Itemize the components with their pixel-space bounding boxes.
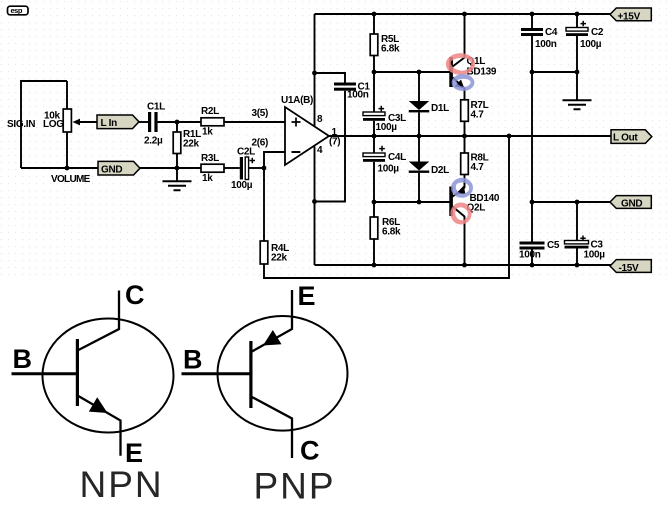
svg-text:4.7: 4.7 xyxy=(471,110,485,121)
svg-text:4: 4 xyxy=(317,145,323,156)
wire C3L bottom stub xyxy=(373,121,375,136)
annotation blue circle Q1L emitter xyxy=(452,75,473,90)
wire R1L top stub xyxy=(176,122,178,132)
node pin4/C1 junction xyxy=(312,199,317,204)
svg-text:(7): (7) xyxy=(329,137,340,148)
wire C3 bottom stub xyxy=(576,249,578,266)
wire SIG.IN loop left/top/bottom xyxy=(21,81,98,168)
capacitor C4 100n xyxy=(521,27,558,50)
node B / D2L xyxy=(417,200,422,205)
node C2 bottom xyxy=(575,70,580,75)
node R6L/-15V xyxy=(372,263,377,268)
wire L In tag to C1L xyxy=(139,121,148,123)
pot wiper arrow xyxy=(73,119,98,126)
op-amp U1A(B) xyxy=(281,95,329,165)
wire D2L top stub xyxy=(418,136,420,162)
svg-text:1k: 1k xyxy=(202,173,213,184)
transistor Q2L BD140 xyxy=(449,186,500,265)
tag +15V xyxy=(610,8,651,22)
svg-text:100µ: 100µ xyxy=(376,122,398,133)
wire R5L bottom stub xyxy=(373,56,375,73)
node C3/-15V xyxy=(575,263,580,268)
node C4/+15V xyxy=(530,12,535,17)
svg-text:PNP: PNP xyxy=(254,466,336,507)
node B (Q2L base) xyxy=(372,200,377,205)
annotation red circle Q2L collector xyxy=(451,203,471,223)
node output/C3L-C4L xyxy=(372,134,377,139)
capacitor C4L 100u xyxy=(363,146,406,175)
ESP logo xyxy=(8,6,29,15)
svg-text:SIG.IN: SIG.IN xyxy=(7,119,35,130)
ground symbol right xyxy=(563,100,592,109)
svg-text:100n: 100n xyxy=(519,250,541,261)
ground stub input xyxy=(176,168,178,181)
node GND/C3 xyxy=(575,200,580,205)
svg-text:U1A(B): U1A(B) xyxy=(281,95,313,106)
wire C1 top branch xyxy=(315,73,346,83)
node C5/-15V xyxy=(530,263,535,268)
svg-text:3(5): 3(5) xyxy=(252,108,269,119)
node inverting input junction xyxy=(262,166,267,171)
capacitor C2 100u xyxy=(566,21,604,50)
node output/feedback xyxy=(507,134,512,139)
wire R8L top stub xyxy=(464,136,466,153)
wire C3L top stub xyxy=(373,72,375,112)
svg-text:22k: 22k xyxy=(271,253,288,264)
annotation red circle Q1L collector xyxy=(447,54,475,74)
svg-text:22k: 22k xyxy=(183,139,200,150)
wire pot top stub xyxy=(66,81,68,109)
svg-text:D2L: D2L xyxy=(431,165,449,176)
svg-text:GND: GND xyxy=(101,165,122,176)
svg-text:GND: GND xyxy=(621,199,642,210)
node Q1L collector/+15V xyxy=(462,12,467,17)
NPN base lead xyxy=(12,372,78,375)
PNP collector lead xyxy=(251,397,292,459)
svg-text:1k: 1k xyxy=(202,127,213,138)
capacitor C2L 100u xyxy=(231,147,255,192)
tag -15V xyxy=(610,260,651,274)
wire pot bottom stub xyxy=(66,132,68,168)
wire input ground rail xyxy=(139,167,201,169)
resistor R7L 4.7 xyxy=(461,100,489,122)
wire C4 bottom line xyxy=(531,36,533,242)
svg-text:8: 8 xyxy=(317,114,323,125)
NPN symbol circle xyxy=(43,319,174,433)
wire C3 top stub xyxy=(576,202,578,241)
svg-text:100µ: 100µ xyxy=(584,250,606,261)
svg-text:C5: C5 xyxy=(547,240,560,251)
svg-text:C1L: C1L xyxy=(147,102,165,113)
wire C4L top stub xyxy=(373,136,375,153)
resistor R4L 22k xyxy=(260,241,289,264)
svg-text:E: E xyxy=(298,281,316,311)
wire R6L bottom stub xyxy=(373,239,375,265)
svg-text:LOG: LOG xyxy=(43,119,64,130)
wire R8L bottom stub xyxy=(464,175,466,189)
svg-text:L Out: L Out xyxy=(613,133,638,144)
svg-text:100n: 100n xyxy=(347,90,369,101)
capacitor C1L 2.2u xyxy=(144,102,165,147)
wire C2 top stub xyxy=(576,14,578,28)
wire D2L bottom stub xyxy=(418,173,420,202)
svg-text:2(6): 2(6) xyxy=(252,138,269,149)
node input ground junction xyxy=(175,166,180,171)
annotation blue circle Q2L emitter xyxy=(452,179,472,197)
wire +15V rail xyxy=(315,13,612,15)
svg-text:R2L: R2L xyxy=(201,106,219,117)
wire pin 4 supply xyxy=(314,147,316,266)
wire output bus xyxy=(329,135,611,137)
wire R6L top stub xyxy=(373,202,375,217)
node output/R7L-R8L xyxy=(462,134,467,139)
wire node A rail xyxy=(374,71,450,73)
svg-text:100µ: 100µ xyxy=(231,180,253,191)
node output/diodes xyxy=(417,134,422,139)
svg-text:D1L: D1L xyxy=(431,103,449,114)
svg-text:L In: L In xyxy=(101,118,118,129)
resistor R3L 1k xyxy=(201,153,224,184)
ground stub right xyxy=(576,72,578,100)
capacitor C3L 100u xyxy=(363,106,406,133)
wire R5L top stub xyxy=(373,14,375,34)
wire C2 bottom stub xyxy=(576,36,578,72)
NPN collector lead xyxy=(78,291,120,351)
svg-text:B: B xyxy=(183,345,203,375)
tag GND input xyxy=(98,161,140,175)
wire R4L top xyxy=(263,168,265,241)
wire C4 top stub xyxy=(531,14,533,28)
svg-text:100µ: 100µ xyxy=(580,39,602,50)
node C4 bottom xyxy=(530,70,535,75)
wire R3L to C2L xyxy=(224,167,240,169)
svg-text:6.8k: 6.8k xyxy=(381,44,400,55)
ground symbol input xyxy=(163,181,192,190)
wire C1 bottom branch xyxy=(315,91,346,202)
wire C1L to R2L xyxy=(158,121,201,123)
NPN emitter lead xyxy=(78,396,121,456)
node VOLUME junction xyxy=(65,166,70,171)
svg-text:C: C xyxy=(300,436,320,466)
svg-text:2.2µ: 2.2µ xyxy=(144,136,163,147)
svg-text:C: C xyxy=(125,280,145,310)
diode D1L xyxy=(409,101,449,114)
wire R1L bottom stub xyxy=(176,154,178,169)
node C1L/R1L junction xyxy=(175,120,180,125)
svg-text:100n: 100n xyxy=(535,39,557,50)
diode D2L xyxy=(409,162,449,177)
wire D1L top stub xyxy=(418,72,420,101)
svg-text:esp: esp xyxy=(11,6,23,15)
node pin8/C1 junction xyxy=(312,71,317,76)
capacitor C3 100u xyxy=(565,236,606,261)
wire pin 8 supply xyxy=(314,14,316,127)
potentiometer VR1 10k LOG xyxy=(43,109,71,132)
wire -in riser xyxy=(264,152,285,168)
node A / D1L xyxy=(417,70,422,75)
wire R4L bottom to feedback run xyxy=(264,136,509,278)
svg-text:NPN: NPN xyxy=(80,464,164,505)
node GND/C5 xyxy=(530,200,535,205)
node Q2L collector/-15V xyxy=(462,263,467,268)
tag GND output xyxy=(610,196,651,210)
transistor Q1L BD139 xyxy=(449,14,497,100)
svg-text:100µ: 100µ xyxy=(378,164,400,175)
wire R7L bottom stub xyxy=(464,121,466,136)
capacitor C5 100n xyxy=(519,240,560,261)
svg-text:VOLUME: VOLUME xyxy=(51,174,91,185)
node A (Q1L base) xyxy=(372,70,377,75)
svg-text:4.7: 4.7 xyxy=(471,162,485,173)
NPN base bar xyxy=(76,339,79,406)
wire C4L bottom stub xyxy=(373,162,375,202)
tag L Out xyxy=(611,130,652,144)
resistor R2L 1k xyxy=(201,106,224,138)
wire C5 bottom stub xyxy=(531,250,533,266)
resistor R6L 6.8k xyxy=(370,217,401,239)
wire GND bus xyxy=(532,201,611,203)
PNP symbol circle xyxy=(218,316,348,431)
wire R2L to op-amp +in xyxy=(224,121,285,123)
wire D1L bottom stub xyxy=(418,112,420,136)
resistor R5L 6.8k xyxy=(370,34,400,56)
resistor R8L 4.7 xyxy=(461,153,489,175)
capacitor C1 100n xyxy=(334,82,370,101)
svg-text:C4L: C4L xyxy=(388,152,406,163)
wire -15V rail xyxy=(315,264,612,266)
PNP base bar xyxy=(249,341,252,408)
tag L In xyxy=(97,115,139,129)
svg-text:-15V: -15V xyxy=(619,263,640,274)
PNP emitter lead xyxy=(251,290,292,352)
svg-text:B: B xyxy=(13,344,33,374)
node C2/+15V xyxy=(575,12,580,17)
svg-text:R3L: R3L xyxy=(201,153,219,164)
wire C4-C2 ground link xyxy=(532,71,577,73)
wire node B rail xyxy=(374,201,450,203)
node R5L top xyxy=(372,12,377,17)
svg-text:6.8k: 6.8k xyxy=(382,227,401,238)
svg-text:+15V: +15V xyxy=(618,11,641,22)
svg-text:C2: C2 xyxy=(591,27,604,38)
wire C2L to feedback node xyxy=(249,167,264,169)
resistor R1L 22k xyxy=(173,129,201,154)
PNP base lead xyxy=(182,372,252,375)
svg-text:C4: C4 xyxy=(545,27,558,38)
